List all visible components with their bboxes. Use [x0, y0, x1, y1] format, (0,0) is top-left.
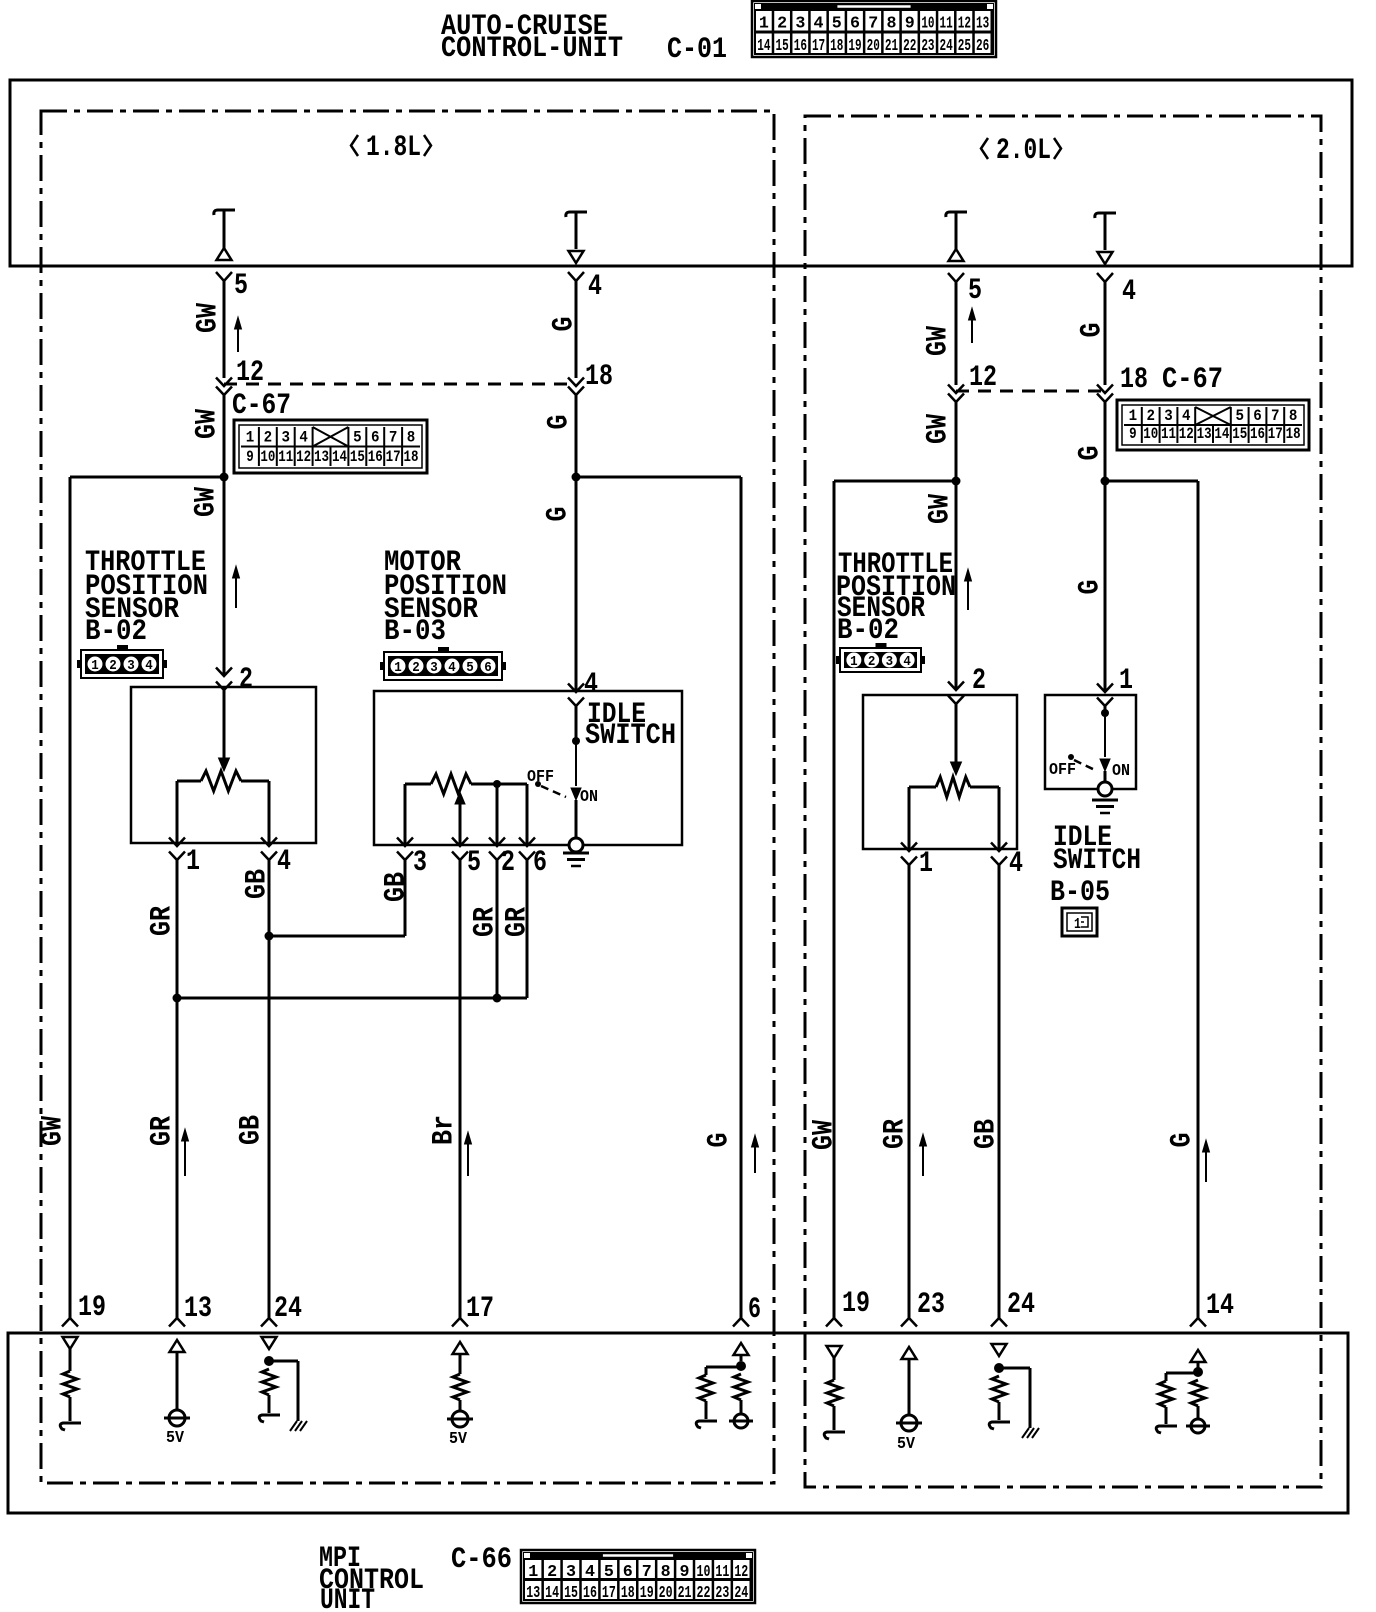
svg-text:GR: GR [469, 907, 503, 937]
svg-text:2: 2 [501, 846, 515, 880]
svg-text:24: 24 [940, 37, 953, 56]
svg-text:16: 16 [368, 448, 383, 466]
svg-text:G: G [1076, 323, 1110, 338]
svg-text:GW: GW [922, 326, 956, 356]
svg-text:18: 18 [830, 37, 843, 56]
svg-text:3: 3 [413, 846, 427, 880]
svg-text:6: 6 [484, 660, 492, 676]
svg-text:GR: GR [501, 907, 535, 937]
svg-text:12: 12 [1179, 425, 1194, 443]
svg-text:B-02: B-02 [85, 615, 147, 649]
svg-text:10: 10 [260, 448, 275, 466]
svg-text:2: 2 [972, 664, 986, 698]
svg-text:15: 15 [775, 37, 788, 56]
svg-text:GW: GW [190, 487, 224, 517]
svg-text:12: 12 [734, 1563, 748, 1582]
svg-text:GW: GW [808, 1120, 842, 1150]
svg-text:25: 25 [958, 37, 971, 56]
svg-text:2: 2 [868, 654, 876, 670]
svg-text:8: 8 [1289, 407, 1298, 425]
svg-text:1: 1 [186, 845, 200, 879]
svg-text:1: 1 [1119, 664, 1133, 698]
svg-text:15: 15 [1232, 425, 1247, 443]
svg-text:14: 14 [757, 37, 770, 56]
svg-text:4: 4 [584, 668, 598, 702]
svg-text:5: 5 [467, 846, 481, 880]
svg-text:9: 9 [905, 15, 915, 34]
svg-text:13: 13 [976, 15, 989, 34]
svg-text:16: 16 [1250, 425, 1265, 443]
svg-text:3: 3 [795, 15, 805, 34]
svg-text:14: 14 [1214, 425, 1229, 443]
svg-text:GR: GR [879, 1119, 913, 1149]
svg-text:14: 14 [332, 448, 347, 466]
svg-text:B-03: B-03 [384, 615, 446, 649]
svg-text:5: 5 [234, 269, 248, 303]
svg-text:14: 14 [1206, 1289, 1234, 1323]
svg-text:4: 4 [588, 270, 602, 304]
svg-text:B-05: B-05 [1050, 876, 1110, 910]
svg-text:24: 24 [274, 1292, 302, 1326]
svg-text:4: 4 [1182, 407, 1191, 425]
svg-text:16: 16 [583, 1584, 597, 1603]
svg-text:3: 3 [1164, 407, 1173, 425]
svg-text:5V: 5V [897, 1435, 916, 1454]
svg-text:26: 26 [976, 37, 989, 56]
svg-text:8: 8 [661, 1563, 671, 1582]
svg-text:4: 4 [814, 15, 824, 34]
svg-text:OFF: OFF [1049, 761, 1076, 780]
svg-text:3: 3 [886, 654, 894, 670]
svg-text:7: 7 [1271, 407, 1280, 425]
svg-text:22: 22 [903, 37, 916, 56]
svg-text:6: 6 [850, 15, 860, 34]
svg-text:21: 21 [885, 37, 898, 56]
svg-text:24: 24 [1007, 1288, 1035, 1322]
svg-text:CONTROL-UNIT: CONTROL-UNIT [441, 32, 623, 66]
svg-text:1: 1 [850, 654, 858, 670]
svg-text:G: G [543, 415, 577, 430]
svg-text:GB: GB [241, 869, 275, 899]
svg-text:5: 5 [832, 15, 842, 34]
svg-text:4: 4 [145, 658, 153, 674]
svg-text:G: G [548, 317, 582, 332]
svg-text:17: 17 [602, 1584, 616, 1603]
svg-text:1: 1 [1129, 407, 1138, 425]
svg-text:17: 17 [812, 37, 825, 56]
svg-text:4: 4 [448, 660, 456, 676]
svg-text:G: G [1074, 446, 1108, 461]
svg-text:12: 12 [296, 448, 311, 466]
svg-text:18: 18 [1286, 425, 1301, 443]
svg-text:B-02: B-02 [837, 614, 899, 648]
svg-text:24: 24 [734, 1584, 748, 1603]
svg-text:4: 4 [1009, 847, 1023, 881]
svg-text:13: 13 [526, 1584, 540, 1603]
svg-text:2: 2 [1146, 407, 1155, 425]
svg-text:C-67: C-67 [1162, 363, 1223, 397]
svg-text:8: 8 [407, 429, 416, 447]
svg-text:1: 1 [528, 1563, 538, 1582]
svg-text:6: 6 [623, 1563, 633, 1582]
svg-text:GW: GW [191, 409, 225, 439]
svg-text:4: 4 [1122, 275, 1136, 309]
svg-text:ON: ON [1112, 762, 1130, 781]
svg-text:4: 4 [903, 654, 911, 670]
svg-text:2: 2 [264, 429, 273, 447]
svg-text:13: 13 [314, 448, 329, 466]
svg-text:20: 20 [659, 1584, 673, 1603]
svg-text:GW: GW [924, 494, 958, 524]
svg-text:9: 9 [1129, 425, 1137, 443]
svg-text:11: 11 [940, 15, 953, 34]
svg-text:23: 23 [921, 37, 934, 56]
svg-text:2: 2 [777, 15, 787, 34]
svg-text:3: 3 [282, 429, 291, 447]
svg-text:5V: 5V [166, 1429, 185, 1448]
svg-text:6: 6 [533, 846, 547, 880]
svg-text:4: 4 [299, 429, 308, 447]
svg-text:13: 13 [1197, 425, 1212, 443]
svg-text:G: G [1166, 1133, 1200, 1148]
svg-text:22: 22 [697, 1584, 711, 1603]
svg-text:Br: Br [428, 1115, 462, 1145]
svg-text:5V: 5V [449, 1430, 468, 1449]
svg-text:5: 5 [353, 429, 362, 447]
svg-text:17: 17 [1268, 425, 1283, 443]
svg-text:21: 21 [678, 1584, 692, 1603]
svg-text:10: 10 [921, 15, 934, 34]
svg-text:SWITCH: SWITCH [585, 719, 676, 753]
svg-text:GW: GW [922, 414, 956, 444]
svg-text:6: 6 [748, 1293, 761, 1327]
svg-text:15: 15 [564, 1584, 578, 1603]
svg-text:G: G [542, 507, 576, 522]
svg-text:UNIT: UNIT [320, 1584, 375, 1612]
svg-text:5: 5 [604, 1563, 614, 1582]
svg-text:6: 6 [1253, 407, 1262, 425]
svg-text:1: 1 [1074, 916, 1081, 933]
svg-text:1: 1 [394, 660, 402, 676]
svg-text:5: 5 [1235, 407, 1244, 425]
svg-text:2: 2 [412, 660, 420, 676]
svg-text:18: 18 [404, 448, 419, 466]
svg-text:9: 9 [680, 1563, 690, 1582]
svg-text:7: 7 [642, 1563, 652, 1582]
svg-text:7: 7 [389, 429, 398, 447]
svg-text:5: 5 [968, 274, 982, 308]
svg-text:18: 18 [585, 360, 613, 394]
svg-text:SWITCH: SWITCH [1053, 844, 1141, 878]
svg-text:19: 19 [640, 1584, 654, 1603]
svg-text:23: 23 [917, 1288, 945, 1322]
svg-text:ON: ON [580, 788, 598, 807]
svg-text:19: 19 [78, 1291, 106, 1325]
svg-text:G: G [703, 1133, 737, 1148]
svg-text:2: 2 [239, 663, 253, 697]
svg-text:8: 8 [886, 15, 896, 34]
svg-text:GW: GW [192, 303, 226, 333]
svg-text:20: 20 [867, 37, 880, 56]
svg-text:3: 3 [430, 660, 438, 676]
svg-text:2.0L: 2.0L [996, 134, 1051, 168]
svg-text:11: 11 [278, 448, 293, 466]
svg-text:2: 2 [547, 1563, 557, 1582]
svg-text:14: 14 [545, 1584, 559, 1603]
svg-text:17: 17 [386, 448, 401, 466]
svg-text:17: 17 [466, 1292, 494, 1326]
svg-text:10: 10 [697, 1563, 711, 1582]
svg-text:18: 18 [1120, 363, 1148, 397]
svg-text:C-67: C-67 [232, 389, 291, 423]
svg-text:6: 6 [371, 429, 380, 447]
svg-text:19: 19 [842, 1287, 870, 1321]
svg-text:GB: GB [970, 1119, 1004, 1149]
svg-text:GR: GR [146, 906, 180, 936]
svg-text:1: 1 [246, 429, 255, 447]
svg-text:GR: GR [146, 1116, 180, 1146]
svg-text:23: 23 [715, 1584, 729, 1603]
svg-text:G: G [1074, 580, 1108, 595]
svg-text:3: 3 [127, 658, 135, 674]
svg-text:18: 18 [621, 1584, 635, 1603]
svg-text:4: 4 [277, 845, 291, 879]
svg-text:1: 1 [919, 847, 933, 881]
svg-text:19: 19 [848, 37, 861, 56]
svg-text:GW: GW [37, 1116, 71, 1146]
svg-text:C-01: C-01 [667, 33, 727, 67]
svg-text:16: 16 [794, 37, 807, 56]
svg-text:GB: GB [235, 1115, 269, 1145]
svg-text:11: 11 [715, 1563, 729, 1582]
svg-text:12: 12 [958, 15, 971, 34]
svg-text:7: 7 [868, 15, 878, 34]
svg-text:3: 3 [566, 1563, 576, 1582]
svg-text:1.8L: 1.8L [366, 131, 421, 165]
svg-text:C-66: C-66 [451, 1543, 512, 1577]
svg-text:GB: GB [380, 872, 414, 902]
svg-text:10: 10 [1143, 425, 1158, 443]
svg-text:1: 1 [91, 658, 99, 674]
svg-text:9: 9 [246, 448, 254, 466]
svg-text:4: 4 [585, 1563, 595, 1582]
svg-text:5: 5 [466, 660, 474, 676]
svg-text:11: 11 [1161, 425, 1176, 443]
svg-text:13: 13 [184, 1292, 212, 1326]
svg-text:1: 1 [759, 15, 769, 34]
svg-text:2: 2 [109, 658, 117, 674]
svg-text:15: 15 [350, 448, 365, 466]
